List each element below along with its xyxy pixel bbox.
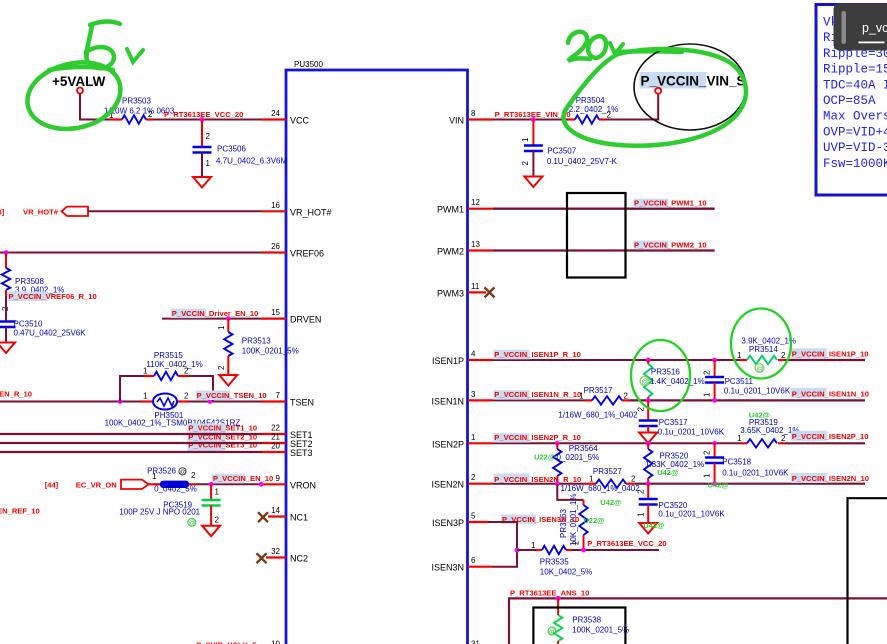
off-page connector VR_HOT# [0, 207, 88, 217]
net label P_VCCIN_ISEN3N_10 [501, 515, 579, 525]
svg-text:UVP=VID-300m: UVP=VID-300m [823, 141, 887, 155]
resistor PR3538 (selected green, vertical) [548, 598, 629, 644]
off-page connector EC_VR_ON [45, 480, 149, 490]
ground (PC3510) [0, 343, 15, 354]
svg-text:ISEN1N: ISEN1N [431, 396, 464, 406]
pin 15 DRVEN (left) [262, 308, 321, 325]
svg-text:2: 2 [703, 450, 712, 455]
wire SET1 [0, 433, 262, 435]
svg-text:VRON: VRON [290, 480, 316, 490]
svg-text:100K_0201_5%: 100K_0201_5% [572, 626, 629, 635]
svg-text:P_VCCIN_PWM1_10: P_VCCIN_PWM1_10 [634, 199, 707, 208]
svg-text:2: 2 [703, 370, 712, 375]
resistor PR3515 [143, 351, 203, 380]
net label P_VCCIN_ISEN2P_R_10 [494, 433, 581, 443]
svg-text:PR3517: PR3517 [584, 386, 613, 395]
pin 3 ISEN1N (right) [431, 390, 493, 407]
resistor PR3508 [1, 253, 64, 312]
svg-text:PC3506: PC3506 [217, 145, 246, 154]
wire SET3 [0, 451, 262, 453]
svg-text:0.1u_0201_10V6K: 0.1u_0201_10V6K [658, 510, 725, 519]
pin 9 VRON (left) [262, 474, 316, 491]
svg-text:PR3515: PR3515 [154, 351, 183, 360]
junction ISEN2N at PR3520 [646, 481, 651, 486]
resistor PR3513 [217, 319, 299, 375]
annotation arrow stroke to ellipse (green) [615, 49, 682, 54]
annotation green blob around P_VCCIN_VIN_S [563, 49, 745, 146]
svg-text:1: 1 [521, 137, 530, 142]
svg-text:PC3511: PC3511 [725, 377, 754, 386]
svg-text:7: 7 [276, 391, 281, 400]
no-connect X NC1 [258, 512, 268, 522]
junction ISEN2N at PC3518 [712, 481, 717, 486]
svg-text:1/16W_680_1%_0402: 1/16W_680_1%_0402 [558, 410, 638, 419]
resistor PR3563 (vertical) [559, 494, 604, 551]
wire P_VCCIN_ISEN1P_R_10 [493, 359, 740, 361]
svg-text:PWM3: PWM3 [437, 288, 464, 298]
wire ISEN2N branch down to PR3563 [557, 484, 583, 500]
pin 1 ISEN2P (right) [432, 433, 493, 450]
wire P_VCCIN_PWM1_10 [493, 208, 715, 210]
capacitor PC3511 [703, 360, 791, 400]
wire P_RT3613EE_VCC_20 (mid) [572, 549, 659, 551]
junction ISEN2N at PR3564 [555, 481, 560, 486]
svg-text:2: 2 [471, 473, 476, 482]
junction VREF06 [4, 250, 9, 255]
net label P_VCCIN_SET2_10 [188, 432, 258, 442]
pin 14 NC1 (left) [268, 506, 308, 523]
svg-text:VIN: VIN [449, 116, 464, 126]
svg-text:1: 1 [703, 392, 712, 397]
svg-text:P_VCCIN_TSEN_10: P_VCCIN_TSEN_10 [197, 391, 267, 400]
svg-text:32: 32 [271, 547, 280, 556]
annotation handwritten 20 (green) [568, 32, 606, 61]
svg-text:PR3514: PR3514 [749, 345, 778, 354]
junction TSEN left [118, 399, 123, 404]
svg-text:P_VCCIN_EN_10: P_VCCIN_EN_10 [213, 474, 273, 483]
svg-text:2: 2 [184, 392, 189, 401]
capacitor PC3520 [637, 484, 726, 523]
svg-text:1: 1 [143, 392, 148, 401]
svg-text:ISEN3P: ISEN3P [432, 518, 464, 528]
capacitor PC3517 [637, 400, 725, 436]
net label P_VCCIN_VREF06_R_10 [8, 292, 97, 302]
ground (PC3517) on ISEN2P line [639, 433, 657, 444]
annotation checkmark near 5 (green) [127, 49, 143, 62]
wire P_VCCIN_ISEN2N_R_10 [493, 483, 585, 485]
svg-text:U42@: U42@ [708, 481, 729, 490]
ground (PR3513) [219, 375, 237, 386]
svg-text:PR3503: PR3503 [122, 97, 151, 106]
svg-text:PR3504: PR3504 [576, 96, 605, 105]
resistor PR3526 (selected, solid) [147, 466, 197, 493]
svg-text:VR_HOT#: VR_HOT# [290, 207, 332, 217]
svg-text:[8]: [8] [0, 208, 5, 217]
svg-text:U42@: U42@ [643, 521, 664, 530]
svg-text:P_VCCIN_SET1_10: P_VCCIN_SET1_10 [188, 423, 257, 432]
svg-text:10K_0402_5%: 10K_0402_5% [540, 568, 593, 577]
svg-text:4: 4 [471, 350, 476, 359]
svg-text:PC3518: PC3518 [722, 458, 751, 467]
svg-text:SEN_R_10: SEN_R_10 [0, 390, 32, 399]
svg-text:2: 2 [148, 110, 153, 119]
wire ISEN2N to label [635, 483, 865, 485]
wire P_VCCIN_PWM2_10 [493, 249, 715, 251]
wire EC_VR_ON to PR3526 [149, 483, 161, 485]
svg-text:2: 2 [781, 434, 786, 443]
svg-text:Ripple=15mV(: Ripple=15mV( [823, 63, 887, 77]
pin 10 bottom (left) [271, 640, 280, 644]
svg-text:VR_HOT#: VR_HOT# [23, 208, 59, 217]
junction ISEN1N at PC3511 [712, 398, 717, 403]
junction VIN [531, 117, 536, 122]
svg-text:12: 12 [471, 198, 480, 207]
svg-text:6: 6 [471, 556, 476, 565]
pin 16 VR_HOT# (left) [262, 201, 332, 218]
svg-text:U22@: U22@ [583, 516, 604, 525]
svg-text:14: 14 [271, 506, 280, 515]
svg-text:0.1u_0201_10V6K: 0.1u_0201_10V6K [658, 428, 725, 437]
svg-text:PR3564: PR3564 [569, 444, 598, 453]
svg-text:NC2: NC2 [290, 554, 308, 564]
wire P_RT3613EE_VIN_10 [493, 119, 568, 121]
svg-text:DRVEN: DRVEN [290, 315, 321, 325]
resistor PR3503 [104, 97, 175, 124]
svg-text:100K_0201_5%: 100K_0201_5% [242, 347, 299, 356]
svg-text:1.4K_0402_1%: 1.4K_0402_1% [650, 377, 705, 386]
svg-text:U42@: U42@ [657, 468, 678, 477]
junction ISEN1P at PR3516 [646, 358, 651, 363]
annotation black rectangle bottom right [848, 498, 887, 644]
svg-text:P_VCCIN_ISEN1N_R_10: P_VCCIN_ISEN1N_R_10 [494, 390, 581, 399]
net label P_VCCIN_SET1_10 [188, 423, 258, 433]
svg-text:PWM2: PWM2 [437, 247, 464, 257]
svg-text:NC1: NC1 [290, 513, 308, 523]
annotation black rectangle over PWM wires [567, 193, 626, 278]
svg-text:P_VCCIN_ISEN1N_10: P_VCCIN_ISEN1N_10 [792, 390, 869, 399]
svg-text:ISEN3N: ISEN3N [431, 563, 464, 573]
svg-text:P_SVID_VCLK_5: P_SVID_VCLK_5 [196, 641, 257, 644]
net label P_VCCIN_SET3_10 [188, 441, 258, 451]
junction VRON 1 [209, 482, 214, 487]
ground (PC3520) [639, 523, 657, 534]
pin 8 VIN (right) [449, 109, 493, 126]
svg-text:1: 1 [215, 488, 220, 497]
svg-text:0_0402_5%: 0_0402_5% [154, 485, 197, 494]
svg-text:PR3535: PR3535 [540, 558, 569, 567]
junction ISEN2P at PC3518 [712, 441, 717, 446]
svg-text:U22@: U22@ [534, 452, 555, 461]
capacitor PC3518 [703, 443, 790, 483]
resistor PR3527 [561, 467, 641, 507]
annotation black rectangle bottom (around PR3538) [533, 608, 625, 644]
annotation green ellipse around PR3514 [731, 309, 791, 379]
svg-text:p_vc: p_vc [862, 21, 887, 35]
svg-text:110K_0402_1%: 110K_0402_1% [146, 360, 202, 369]
svg-text:PR3516: PR3516 [651, 368, 680, 377]
op-amp/controller U PU3500 main IC box [286, 60, 468, 644]
annotation green ellipse around PR3516 [631, 340, 690, 411]
net label P_VCCIN_PWM1_10 [634, 199, 707, 208]
pin 26 VREF06 (left) [262, 242, 324, 259]
svg-text:P_RT3613EE_VCC_20: P_RT3613EE_VCC_20 [587, 539, 666, 548]
svg-text:Fsw=1000KHz: Fsw=1000KHz [823, 157, 887, 171]
svg-text:VCC: VCC [290, 116, 310, 126]
annotation black ellipse around P_VCCIN_VIN_S [634, 44, 746, 130]
ground (PC3507) [524, 177, 542, 188]
svg-text:TDC=40A ICC: TDC=40A ICC [823, 78, 887, 92]
pin 32 NC2 (left) [266, 547, 308, 564]
svg-text:20: 20 [271, 442, 280, 451]
svg-text:P_VCCIN_VIN_S: P_VCCIN_VIN_S [641, 74, 746, 89]
svg-text:P_VCCIN_VREF06_R_10: P_VCCIN_VREF06_R_10 [9, 292, 97, 301]
svg-text:0.47U_0402_25V6K: 0.47U_0402_25V6K [14, 329, 87, 338]
net label P_VCCIN_ISEN1P_R_10 [494, 350, 581, 360]
svg-text:OCP=85A: OCP=85A [823, 94, 876, 108]
svg-text:+5VALW: +5VALW [52, 74, 106, 89]
svg-text:1: 1 [703, 473, 712, 478]
svg-text:31: 31 [471, 640, 480, 644]
no-connect X NC2 [257, 553, 267, 563]
ground (PC3519) [202, 526, 220, 537]
svg-text:@: @ [549, 629, 556, 636]
net label P_VCCIN_ISEN1P_10 [791, 348, 869, 358]
wire VREF06 net [0, 252, 262, 254]
svg-text:5: 5 [471, 512, 476, 521]
svg-text:24: 24 [271, 109, 280, 118]
wire to P_VCCIN_VIN_S [606, 94, 658, 120]
svg-text:@: @ [757, 366, 764, 373]
svg-text:ISEN2N: ISEN2N [431, 480, 464, 490]
net terminal P_VCCIN_VIN_S [640, 72, 746, 94]
svg-text:2: 2 [191, 471, 196, 480]
junction P_RT3613EE_VCC_20 [581, 548, 586, 553]
net label P_VCCIN_EN_10 [212, 474, 273, 484]
svg-text:1: 1 [217, 325, 226, 330]
svg-text:2: 2 [607, 111, 612, 120]
svg-text:21: 21 [271, 433, 280, 442]
svg-text:1: 1 [206, 159, 211, 168]
svg-text:ISEN2P: ISEN2P [432, 439, 464, 449]
svg-text:OVP=VID+400m: OVP=VID+400m [823, 125, 887, 139]
pin 21 SET2 (left) [262, 433, 313, 450]
svg-text:15: 15 [271, 308, 280, 317]
svg-text:TSEN: TSEN [290, 398, 314, 408]
net label P_VCCIN_TSEN_10 [196, 391, 267, 401]
annotation circle around +5VALW (green) [27, 62, 120, 128]
svg-text:11: 11 [471, 282, 480, 291]
net label P_VCCIN_ISEN2P_10 [791, 431, 869, 441]
junction ANS [556, 596, 561, 601]
pin 4 ISEN1P (right) [432, 350, 493, 367]
svg-text:1: 1 [143, 367, 148, 376]
pin 2 ISEN2N (right) [431, 473, 493, 490]
svg-text:2: 2 [217, 365, 226, 370]
pin 6 ISEN3N (right) [431, 556, 492, 573]
resistor PR3514 (selected teal) [737, 337, 796, 374]
wire SET2 [0, 442, 262, 444]
svg-text:SET3: SET3 [290, 448, 313, 458]
svg-text:P_VCCIN_PWM2_10: P_VCCIN_PWM2_10 [634, 241, 707, 250]
junction ISEN3 loop [515, 548, 520, 553]
power flag +5VALW [52, 74, 106, 94]
svg-text:2: 2 [781, 351, 786, 360]
net label P_VCCIN_ISEN2N_R_10 [494, 474, 582, 485]
svg-text:1/16W_680_1%_0402: 1/16W_680_1%_0402 [561, 484, 641, 493]
resistor PR3517 [558, 386, 638, 420]
junction ISEN1P at PC3511 [712, 358, 717, 363]
capacitor PC3507 [521, 120, 618, 177]
wire P_RT3613EE_ANS_10 [509, 598, 887, 644]
VR spec note box [816, 5, 887, 196]
wire to PR3535 [517, 549, 536, 551]
wire TSEN net [0, 401, 262, 403]
svg-text:2: 2 [206, 132, 211, 141]
svg-text:2: 2 [572, 540, 581, 545]
net label P_VCCIN_Driver_EN_10 [171, 309, 258, 319]
capacitor PC3506 [193, 120, 288, 178]
pin 24 VCC (left) [262, 109, 310, 126]
ground (PC3506) [193, 177, 211, 188]
svg-text:0.1U_0402_25V7-K: 0.1U_0402_25V7-K [547, 157, 618, 166]
tooltip overlay (dark) [834, 4, 887, 51]
svg-text:P_VCCIN_Driver_EN_10: P_VCCIN_Driver_EN_10 [172, 309, 259, 318]
svg-text:P_VCCIN_ISEN2N_R_10: P_VCCIN_ISEN2N_R_10 [494, 475, 581, 484]
svg-text:1: 1 [579, 392, 584, 401]
resistor PR3516 (selected teal, vertical) [640, 360, 705, 400]
pin 12 PWM1 (right) [437, 198, 493, 215]
net label P_VCCIN_ISEN1N_10 [791, 388, 869, 399]
junction VRON 2 [259, 482, 264, 487]
junction DRVEN [226, 316, 231, 321]
svg-text:0_0201_5%: 0_0201_5% [557, 453, 600, 462]
junction ISEN2P at PR3520 [646, 441, 651, 446]
svg-text:13: 13 [471, 240, 480, 249]
svg-text:8: 8 [471, 109, 476, 118]
svg-text:PWM1: PWM1 [437, 205, 464, 215]
svg-text:PC3510: PC3510 [14, 320, 43, 329]
svg-text:3.65K_0402_1%: 3.65K_0402_1% [740, 426, 799, 435]
resistor PR3504 [568, 96, 618, 124]
wire ISEN1N to label [630, 399, 865, 401]
svg-text:VREF06: VREF06 [290, 249, 324, 259]
svg-text:1: 1 [737, 434, 742, 443]
svg-text:4.7U_0402_6.3V6M: 4.7U_0402_6.3V6M [216, 157, 288, 166]
wire VR_HOT# [88, 210, 262, 212]
pin 20 SET3 (left) [262, 442, 313, 459]
svg-text:PR3513: PR3513 [242, 337, 271, 346]
svg-text:@: @ [642, 379, 649, 386]
svg-text:2: 2 [215, 516, 220, 525]
svg-text:P_VCCIN_ISEN2P_10: P_VCCIN_ISEN2P_10 [792, 432, 869, 441]
wire parallel loop [120, 376, 213, 402]
svg-text:1: 1 [531, 541, 536, 550]
svg-text:PC3507: PC3507 [547, 147, 576, 156]
svg-text:9: 9 [276, 474, 281, 483]
annotation checkmark near 20 (green) [610, 43, 623, 54]
pin 13 PWM2 (right) [437, 240, 493, 257]
annotation handwritten 5 (green) [86, 21, 120, 68]
svg-text:[44]: [44] [45, 480, 59, 489]
svg-text:22: 22 [271, 424, 280, 433]
resistor PR3564 (vertical) [534, 443, 599, 483]
resistor PR3519 [737, 411, 799, 448]
pin 5 ISEN3P (right) [432, 512, 488, 529]
svg-text:P_VCCIN_ISEN2P_R_10: P_VCCIN_ISEN2P_R_10 [494, 433, 581, 442]
svg-text:10: 10 [271, 640, 280, 644]
svg-text:SEN_REF_10: SEN_REF_10 [0, 507, 40, 516]
pin 31 bottom (right) [471, 640, 480, 644]
net label P_VCCIN_ISEN2N_10 [791, 473, 869, 483]
svg-text:2: 2 [631, 475, 636, 484]
svg-text:PC3517: PC3517 [659, 418, 688, 427]
pin 22 SET1 (left) [262, 424, 313, 441]
svg-text:P_RT3613EE_VCC_20: P_RT3613EE_VCC_20 [164, 110, 243, 119]
svg-text:P_VCCIN_ISEN1P_10: P_VCCIN_ISEN1P_10 [792, 350, 869, 359]
resistor PR3520 (vertical) [644, 443, 704, 483]
svg-text:0.1u_0201_10V6K: 0.1u_0201_10V6K [722, 469, 789, 478]
svg-text:26: 26 [271, 242, 280, 251]
net label P_VCCIN_PWM2_10 [634, 241, 707, 250]
svg-text:@: @ [189, 520, 196, 527]
wire net P_RT3613EE_VCC_20 [153, 119, 262, 121]
svg-text:U42@: U42@ [600, 498, 621, 507]
svg-text:2: 2 [624, 392, 629, 401]
resistor PR3535 [531, 541, 592, 577]
svg-text:2: 2 [184, 367, 189, 376]
svg-text:1: 1 [152, 472, 157, 481]
wire P_VCCIN_ISEN1N_R_10 [493, 399, 585, 401]
svg-text:2: 2 [521, 161, 530, 166]
svg-text:P_VCCIN_ISEN2N_10: P_VCCIN_ISEN2N_10 [792, 474, 869, 483]
svg-text:1: 1 [471, 433, 476, 442]
svg-text:PR3538: PR3538 [572, 616, 601, 625]
thermistor PH3501 [105, 392, 241, 428]
no-connect X PWM3 [485, 287, 495, 297]
svg-text:P_RT3613EE_ANS_10: P_RT3613EE_ANS_10 [510, 588, 589, 597]
svg-text:1: 1 [737, 351, 742, 360]
wire +5VALW to R PR3503 [80, 94, 110, 120]
svg-text:EC_VR_ON: EC_VR_ON [76, 480, 117, 489]
pin 11 PWM3 (right) [437, 282, 486, 299]
svg-text:16: 16 [271, 201, 280, 210]
svg-text:0.1u_0201_10V6K: 0.1u_0201_10V6K [724, 386, 791, 395]
wire P_VCCIN_ISEN2P_R_10 [493, 442, 740, 444]
svg-text:@: @ [180, 469, 187, 476]
svg-text:Max Overshoo: Max Overshoo [823, 110, 887, 124]
svg-text:2: 2 [637, 407, 646, 412]
wire ISEN2P to label [785, 442, 865, 444]
svg-text:P_VCCIN_ISEN1P_R_10: P_VCCIN_ISEN1P_R_10 [494, 350, 581, 359]
svg-text:1: 1 [637, 512, 646, 517]
wire P_VCCIN_EN_10 [196, 483, 262, 485]
capacitor PC3510 [0, 296, 86, 342]
junction ISEN2P at PR3564 [555, 441, 560, 446]
svg-text:3: 3 [471, 390, 476, 399]
wire ISEN3P/ISEN3N loop [488, 522, 517, 567]
svg-text:ISEN1P: ISEN1P [432, 356, 464, 366]
wire DRVEN net [162, 318, 262, 320]
junction ISEN1N at PR3516 [646, 398, 651, 403]
junction at VCC cap [200, 117, 205, 122]
svg-text:2: 2 [637, 489, 646, 494]
pin 7 TSEN (left) [262, 391, 314, 408]
svg-text:PU3500: PU3500 [294, 60, 323, 69]
svg-text:1: 1 [589, 475, 594, 484]
wire ISEN1P to label [785, 359, 865, 361]
svg-text:100P 25V J NPO 0201: 100P 25V J NPO 0201 [119, 508, 200, 517]
svg-text:PR3527: PR3527 [593, 467, 622, 476]
